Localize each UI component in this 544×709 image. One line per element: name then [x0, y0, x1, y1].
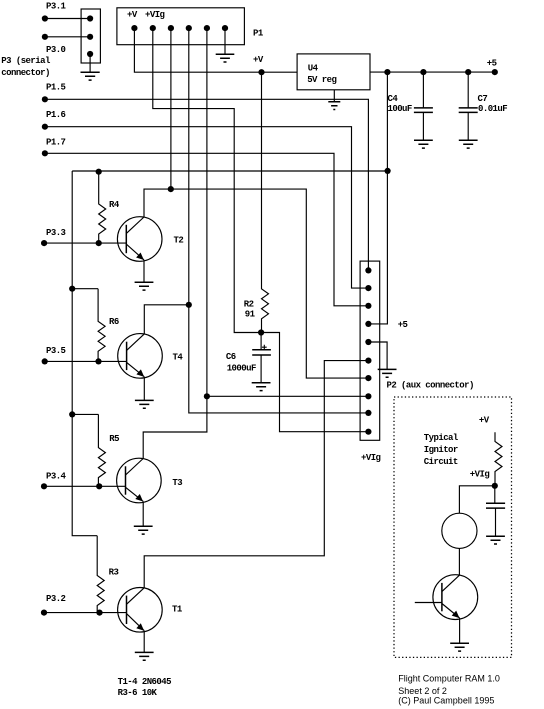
svg-text:Ignitor: Ignitor	[424, 445, 458, 455]
wire +5 down to P2 pin4	[368, 72, 387, 324]
node P3.1 terminal	[42, 15, 48, 21]
ignitor charge resistor	[495, 432, 502, 486]
node P1 pin4 / T4 collector junction	[186, 302, 192, 308]
node R6 bottom junction	[95, 358, 101, 364]
svg-text:91: 91	[245, 310, 256, 320]
P2 pin 1 dot	[365, 267, 371, 273]
node +VIg junction (R2/C6)	[258, 329, 264, 335]
ground under U4	[328, 102, 340, 110]
node R5 bottom junction	[96, 483, 102, 489]
wire U4 ground stem	[333, 90, 335, 102]
wire +V from P1 pin1 to U4 input	[134, 28, 297, 72]
resistor R5	[98, 414, 105, 486]
svg-text:+V: +V	[253, 55, 264, 65]
label P3.0	[46, 45, 66, 55]
wire P3 pin3 to ground	[89, 54, 91, 72]
label 100uF	[388, 104, 412, 114]
P1 pin 5 dot	[204, 25, 210, 31]
transistor T2	[117, 217, 162, 262]
ground under ignitor transistor	[450, 643, 469, 651]
svg-text:R4: R4	[109, 200, 120, 210]
label P1.7	[46, 138, 66, 148]
svg-text:P3 (serial: P3 (serial	[1, 56, 51, 66]
wire T3 emitter to ground	[142, 501, 144, 526]
wire P1.7 to P2 pin3	[45, 153, 369, 305]
P2 pin 5 dot	[365, 339, 371, 345]
svg-text:C7: C7	[478, 94, 488, 104]
P2 pin 10 dot	[365, 429, 371, 435]
label P1.6	[46, 110, 66, 120]
wire T1 emitter to ground	[143, 631, 145, 653]
wire T2 collector to P2 pin7	[144, 189, 368, 378]
node R4 top junction	[96, 169, 102, 175]
P1 pin 4 dot	[186, 25, 192, 31]
P1 pin 6 dot	[222, 25, 228, 31]
P1 pin 3 dot	[168, 25, 174, 31]
P1 pin 1 dot	[131, 25, 137, 31]
node P1 pin5 / T3 collector / P2 pin8 junction	[204, 393, 210, 399]
svg-text:P3.0: P3.0	[46, 45, 66, 55]
P2 pin 9 dot	[365, 410, 371, 416]
P3 pin 2 dot	[87, 34, 93, 40]
ground under C4	[414, 140, 433, 148]
node R4 bottom junction	[96, 240, 102, 246]
svg-text:P2 (aux connector): P2 (aux connector)	[387, 381, 474, 391]
transistor T1	[118, 588, 163, 633]
P2 pin 7 dot	[365, 375, 371, 381]
label C7	[478, 94, 488, 104]
label R2	[244, 299, 254, 309]
P3 pin 1 dot	[87, 15, 93, 21]
label P3.1	[46, 1, 67, 11]
P2 pin 3 dot	[365, 303, 371, 309]
svg-text:P1: P1	[253, 28, 264, 38]
svg-text:(C) Paul Campbell 1995: (C) Paul Campbell 1995	[398, 695, 494, 705]
node C4 junction	[420, 69, 426, 75]
node P1.7 terminal	[42, 150, 48, 156]
svg-text:Typical: Typical	[424, 433, 459, 443]
label U4	[308, 63, 319, 73]
wire P3.3 to T2 base	[44, 242, 126, 244]
svg-text:T1: T1	[172, 604, 183, 614]
transistor T4	[118, 334, 163, 379]
P2 pin 2 dot	[365, 285, 371, 291]
node +5 rail junction to P2	[384, 69, 390, 75]
label R4	[109, 200, 120, 210]
svg-text:P1.5: P1.5	[46, 82, 66, 92]
label +VIg ignitor	[470, 469, 490, 479]
wire +VIg to P2 pin10	[261, 333, 368, 432]
node P3.5 terminal	[42, 358, 48, 364]
resistor R4	[99, 172, 106, 243]
node P3.0 terminal	[42, 34, 48, 40]
svg-text:1000uF: 1000uF	[227, 363, 256, 373]
wire T4 emitter to ground	[143, 377, 145, 401]
label R3	[109, 568, 119, 578]
label +V at P1 pin1	[127, 10, 138, 20]
wire P1 pin6 to ground	[224, 28, 226, 54]
svg-text:connector): connector)	[1, 68, 50, 78]
label P3.4	[46, 472, 67, 482]
node P3.2 terminal	[41, 610, 47, 616]
wire ignitor transistor base stub	[415, 602, 442, 604]
label P3 (serial connector)	[1, 56, 51, 78]
svg-text:+VIg: +VIg	[145, 10, 165, 20]
wire P2 pin5 to ground	[368, 342, 387, 369]
transistor T3	[117, 458, 162, 503]
label T2	[174, 236, 184, 246]
wire left +5 rail down the page	[72, 171, 97, 536]
node +5 terminal	[492, 69, 498, 75]
node P3.4 terminal	[41, 483, 47, 489]
ignitor driver transistor	[433, 575, 478, 620]
connector P1 box	[117, 8, 244, 45]
label Typical Ignitor Circuit	[424, 433, 459, 467]
ground under P1 pin6	[216, 54, 235, 62]
node R6 branch junction	[69, 286, 75, 292]
connector P3 (serial) box	[81, 9, 100, 63]
wire P1.5 to P2 pin1	[45, 99, 369, 270]
node P1.5 terminal	[42, 96, 48, 102]
label 5V reg	[307, 75, 336, 85]
node +V junction on rail	[258, 69, 264, 75]
label C6	[226, 352, 236, 362]
ground under T1	[135, 652, 154, 660]
label R5	[109, 434, 119, 444]
svg-text:T4: T4	[173, 353, 184, 363]
svg-text:+V: +V	[479, 416, 490, 426]
node +VIg ignitor junction	[492, 483, 498, 489]
svg-text:Sheet 2 of 2: Sheet 2 of 2	[398, 686, 447, 696]
svg-text:T2: T2	[174, 236, 184, 246]
resistor R6	[98, 289, 105, 362]
label +V ignitor	[479, 416, 490, 426]
wire branch to R5	[72, 413, 98, 415]
wire T1 collector to P2 pin6	[144, 361, 368, 588]
ground under ignitor capacitor	[486, 536, 505, 544]
P1 pin 2 dot	[150, 25, 156, 31]
ground under T2	[135, 282, 154, 290]
svg-text:5V reg: 5V reg	[307, 75, 336, 85]
wire P3.2 to T1 base	[44, 612, 127, 614]
label T1	[172, 604, 183, 614]
svg-text:R6: R6	[109, 317, 119, 327]
label R6	[109, 317, 119, 327]
wire P3.5 to T4 base	[45, 360, 127, 362]
wire T2 emitter to ground	[143, 260, 145, 282]
capacitor C6 (polarized)	[252, 333, 271, 383]
label 1000uF	[227, 363, 256, 373]
label C4	[388, 94, 399, 104]
note T1-4 2N6045 / R3-6 10K	[118, 677, 172, 698]
svg-text:R2: R2	[244, 299, 254, 309]
svg-text:100uF: 100uF	[388, 104, 412, 114]
svg-text:P3.4: P3.4	[46, 472, 67, 482]
label P1	[253, 28, 264, 38]
label +5	[487, 58, 497, 68]
label T3	[172, 478, 182, 488]
svg-text:P1.7: P1.7	[46, 138, 66, 148]
label P3.2	[46, 594, 66, 604]
ignitor squib (circle)	[442, 513, 477, 548]
wire P1.6 to P2 pin2	[45, 127, 369, 288]
wire P1 pin3 down to T2 collector	[170, 28, 172, 189]
wire P3.4 to T3 base	[44, 485, 126, 487]
label P2 (aux connector)	[387, 381, 474, 391]
ground at P2 pin5	[378, 369, 397, 377]
dashed box typical ignitor circuit	[394, 397, 512, 657]
wire branch to R6	[72, 288, 98, 290]
wire +VIg staircase from P1 pin2 to C6 node	[153, 28, 261, 332]
svg-text:Circuit: Circuit	[424, 457, 458, 467]
label +VIg under P2	[361, 453, 381, 463]
svg-text:U4: U4	[308, 63, 319, 73]
ground under C6	[252, 383, 271, 391]
node P1 pin3 / T2 collector junction	[168, 186, 174, 192]
wire P3.0 to P3 pin2	[45, 36, 90, 38]
label T4	[173, 353, 184, 363]
wire T3 collector riser	[143, 396, 207, 458]
label +5 at P2 pin4	[398, 320, 408, 330]
svg-text:P1.6: P1.6	[46, 110, 66, 120]
svg-text:T3: T3	[172, 478, 182, 488]
label P3.3	[46, 228, 66, 238]
capacitor C7	[459, 72, 478, 140]
svg-text:R5: R5	[109, 434, 119, 444]
label +VIg at P1 pin2	[145, 10, 165, 20]
node P1.6 terminal	[42, 124, 48, 130]
wire P3.1 to P3 pin1	[45, 18, 90, 20]
ground under T3	[134, 526, 153, 534]
node R3 bottom junction	[96, 610, 102, 616]
svg-text:P3.1: P3.1	[46, 1, 67, 11]
node P3.3 terminal	[41, 240, 47, 246]
svg-text:0.01uF: 0.01uF	[478, 104, 507, 114]
svg-text:P3.3: P3.3	[46, 228, 66, 238]
P2 pin 4 dot	[365, 321, 371, 327]
voltage regulator U4 box	[297, 54, 370, 90]
title block text	[398, 673, 500, 705]
svg-text:C4: C4	[388, 94, 399, 104]
svg-text:+VIg: +VIg	[361, 453, 381, 463]
label P1.5	[46, 82, 66, 92]
connector P2 box	[360, 261, 380, 440]
wire P1 pin4 down to P2 pin9	[189, 28, 369, 413]
capacitor C4	[414, 72, 433, 140]
wire T4 collector to P1 pin4 junction	[144, 305, 189, 334]
svg-text:R3: R3	[109, 568, 119, 578]
svg-text:Flight Computer RAM 1.0: Flight Computer RAM 1.0	[398, 673, 500, 683]
node R5 branch junction	[69, 411, 75, 417]
wire P1 pin5 down to T3 junction	[206, 28, 208, 396]
label +V above junction	[253, 55, 264, 65]
wire squib to driver collector	[458, 548, 460, 575]
label P3.5	[46, 346, 66, 356]
label 91	[245, 310, 256, 320]
svg-text:C6: C6	[226, 352, 236, 362]
ignitor filter capacitor	[486, 486, 505, 536]
svg-text:+VIg: +VIg	[470, 469, 490, 479]
wire +5 rail from U4 output	[370, 71, 495, 73]
P2 pin 8 dot	[365, 393, 371, 399]
resistor R2	[262, 72, 269, 332]
wire +VIg to squib	[459, 486, 494, 513]
ground under T4	[135, 400, 154, 408]
svg-text:T1-4 2N6045: T1-4 2N6045	[118, 677, 172, 687]
svg-text:P3.5: P3.5	[46, 346, 66, 356]
label 0.01uF	[478, 104, 507, 114]
wire ignitor emitter to ground	[459, 618, 461, 643]
node +5 line / +5 vertical junction	[385, 168, 391, 174]
node C7 junction	[465, 69, 471, 75]
svg-text:+V: +V	[127, 10, 138, 20]
svg-text:+5: +5	[398, 320, 408, 330]
wire to P2 pin8	[207, 395, 369, 397]
svg-text:R3-6 10K: R3-6 10K	[118, 688, 158, 698]
P3 pin 3 dot	[87, 51, 93, 57]
wire +5 distribution line to base pull-ups	[72, 170, 387, 172]
svg-text:+5: +5	[487, 58, 497, 68]
resistor R3	[97, 536, 104, 613]
ground under P3	[81, 72, 100, 80]
P2 pin 6 dot	[365, 358, 371, 364]
ground under C7	[459, 140, 478, 148]
svg-text:P3.2: P3.2	[46, 594, 66, 604]
